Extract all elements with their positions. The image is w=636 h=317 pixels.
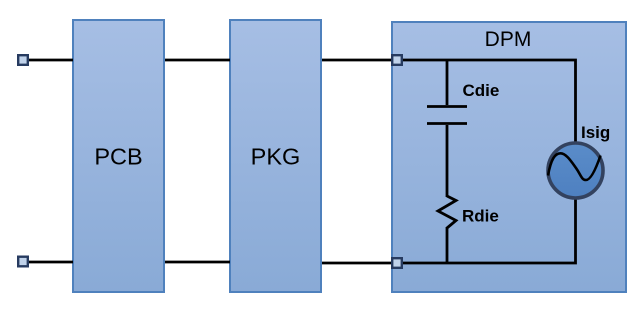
svg-text:Cdie: Cdie [463, 81, 500, 100]
svg-text:Rdie: Rdie [462, 207, 499, 226]
svg-text:Isig: Isig [581, 123, 610, 142]
svg-text:DPM: DPM [485, 28, 532, 51]
svg-text:PKG: PKG [251, 144, 301, 170]
svg-text:PCB: PCB [94, 144, 142, 170]
